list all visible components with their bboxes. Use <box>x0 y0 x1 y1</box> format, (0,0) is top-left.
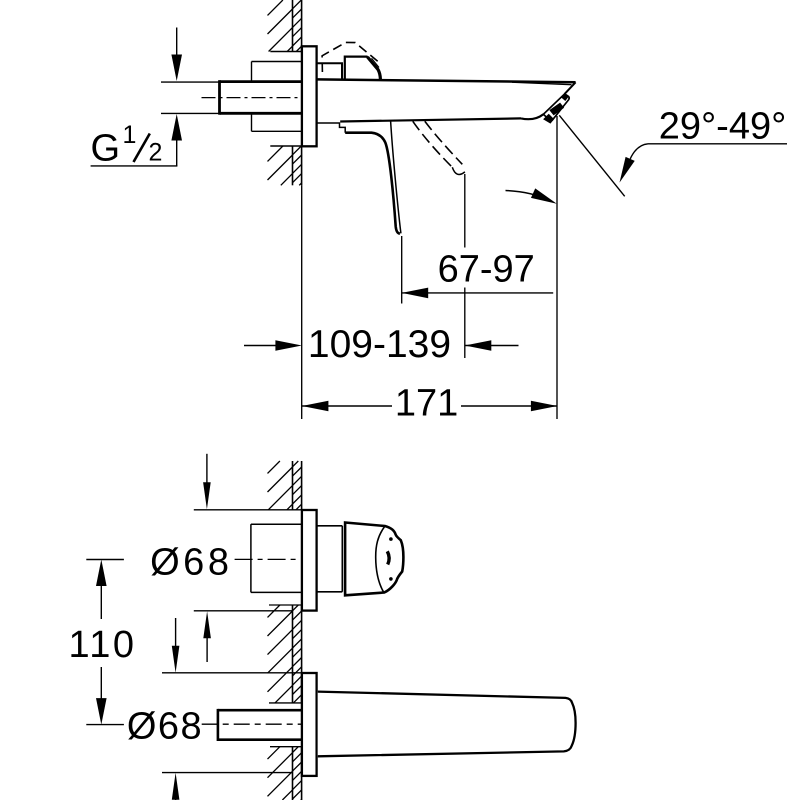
wall hatch lower section (top view) <box>268 146 283 161</box>
label 29-49 leader line <box>648 143 787 145</box>
svg-text:109-139: 109-139 <box>308 323 451 366</box>
lever in raised position (dashed) <box>322 42 380 72</box>
handle lever knob (end view) <box>345 523 403 596</box>
dimension arrow to pipe top <box>176 28 178 57</box>
pipe centerline (bottom view) <box>202 723 301 725</box>
aerator block at spout tip <box>543 94 568 120</box>
wall hatch section between plates (bottom view) <box>268 605 280 617</box>
wall opening boundary below handle body <box>269 604 302 606</box>
supply pipe (bottom view) <box>218 709 302 712</box>
mounting stub above spout <box>317 63 342 79</box>
svg-text:1: 1 <box>122 121 136 149</box>
extension line handle plate bottom <box>194 610 293 612</box>
dimension line 109-139 right arrow <box>465 340 492 351</box>
pipe centerline <box>202 97 304 99</box>
concealed handle cylinder behind wall <box>251 523 302 525</box>
wall opening boundary above handle body <box>269 509 302 511</box>
svg-text:Ø68: Ø68 <box>127 706 203 748</box>
dimension line 171 <box>302 401 329 412</box>
water jet direction line <box>559 115 624 196</box>
svg-text:110: 110 <box>68 624 136 666</box>
lever front edge (solid, closed position) <box>345 133 400 234</box>
extension line from wall face <box>301 185 303 419</box>
spout top edge <box>317 79 576 82</box>
spout swivel arc arrow <box>506 191 550 201</box>
supply pipe thin section <box>161 81 220 83</box>
reference arrow down to plate top <box>206 454 208 484</box>
svg-text:29°-49°: 29°-49° <box>659 106 787 148</box>
svg-text:171: 171 <box>395 383 458 425</box>
extension line from spout tip <box>556 116 558 419</box>
wall hatch section below spout (bottom view) <box>268 747 280 759</box>
wall section lines (bottom view) <box>292 461 294 510</box>
wall opening boundary lower (top view) <box>270 145 301 147</box>
handle base housing <box>345 57 381 80</box>
dimension line 67-97 <box>402 288 429 299</box>
handle neck <box>317 525 343 527</box>
svg-text:2: 2 <box>148 139 162 167</box>
dimension 110 top tick <box>86 559 124 561</box>
extension line from dashed lever <box>464 174 466 248</box>
spout lower face at tip <box>521 114 543 119</box>
reference arrow up to plate bottom <box>203 611 211 638</box>
spout underside edge <box>340 118 521 121</box>
reference arrow down to spout plate top <box>175 618 177 648</box>
wall opening boundary above pipe <box>269 702 302 704</box>
dimension line 109-139 left arrow <box>244 345 294 347</box>
svg-text:G: G <box>91 128 121 170</box>
spout body (bottom view) <box>318 692 576 757</box>
dashed lever end hook <box>452 167 465 174</box>
knob detail lens <box>387 551 389 564</box>
spout wall plate (bottom view) <box>302 673 317 776</box>
extension line spout plate top <box>162 672 302 674</box>
lever in forward position (dashed) line 2 <box>425 121 463 164</box>
wall plate (top view) <box>302 46 317 146</box>
spout inner top edge near tip <box>512 82 572 85</box>
knob detail dot upper <box>389 537 393 541</box>
reference arrow up to spout plate bottom <box>172 773 180 800</box>
wall hatch upper section (top view) <box>268 0 283 15</box>
label G 1/2 leader underline <box>91 165 178 167</box>
concealed body outline behind wall <box>252 61 303 63</box>
wall hatch section above handle (bottom view) <box>268 461 280 473</box>
handle wall plate (bottom view) <box>302 510 317 611</box>
svg-text:Ø68: Ø68 <box>150 542 232 584</box>
wall opening boundary upper (top view) <box>270 51 301 53</box>
handle cylinder centerline <box>235 558 300 560</box>
extension line handle plate top <box>194 509 269 511</box>
dimension line 110 <box>96 560 107 587</box>
lever back edge (solid, closed position) <box>391 121 401 234</box>
extension line from lever tip <box>401 236 403 304</box>
spout tip end face upper <box>565 82 576 94</box>
knob detail dot lower <box>389 577 393 581</box>
dimension 110 bottom tick <box>86 724 124 726</box>
wall section lines (top view) <box>292 0 294 52</box>
wall opening boundary below pipe <box>270 746 302 748</box>
mounting stub below spout <box>317 123 345 133</box>
lever in forward position (dashed) line 1 <box>413 121 453 167</box>
svg-text:67-97: 67-97 <box>438 249 535 291</box>
dimension arrow to pipe bottom <box>171 114 182 141</box>
extension line spout plate bottom <box>162 772 292 774</box>
supply pipe threaded section <box>220 80 303 83</box>
